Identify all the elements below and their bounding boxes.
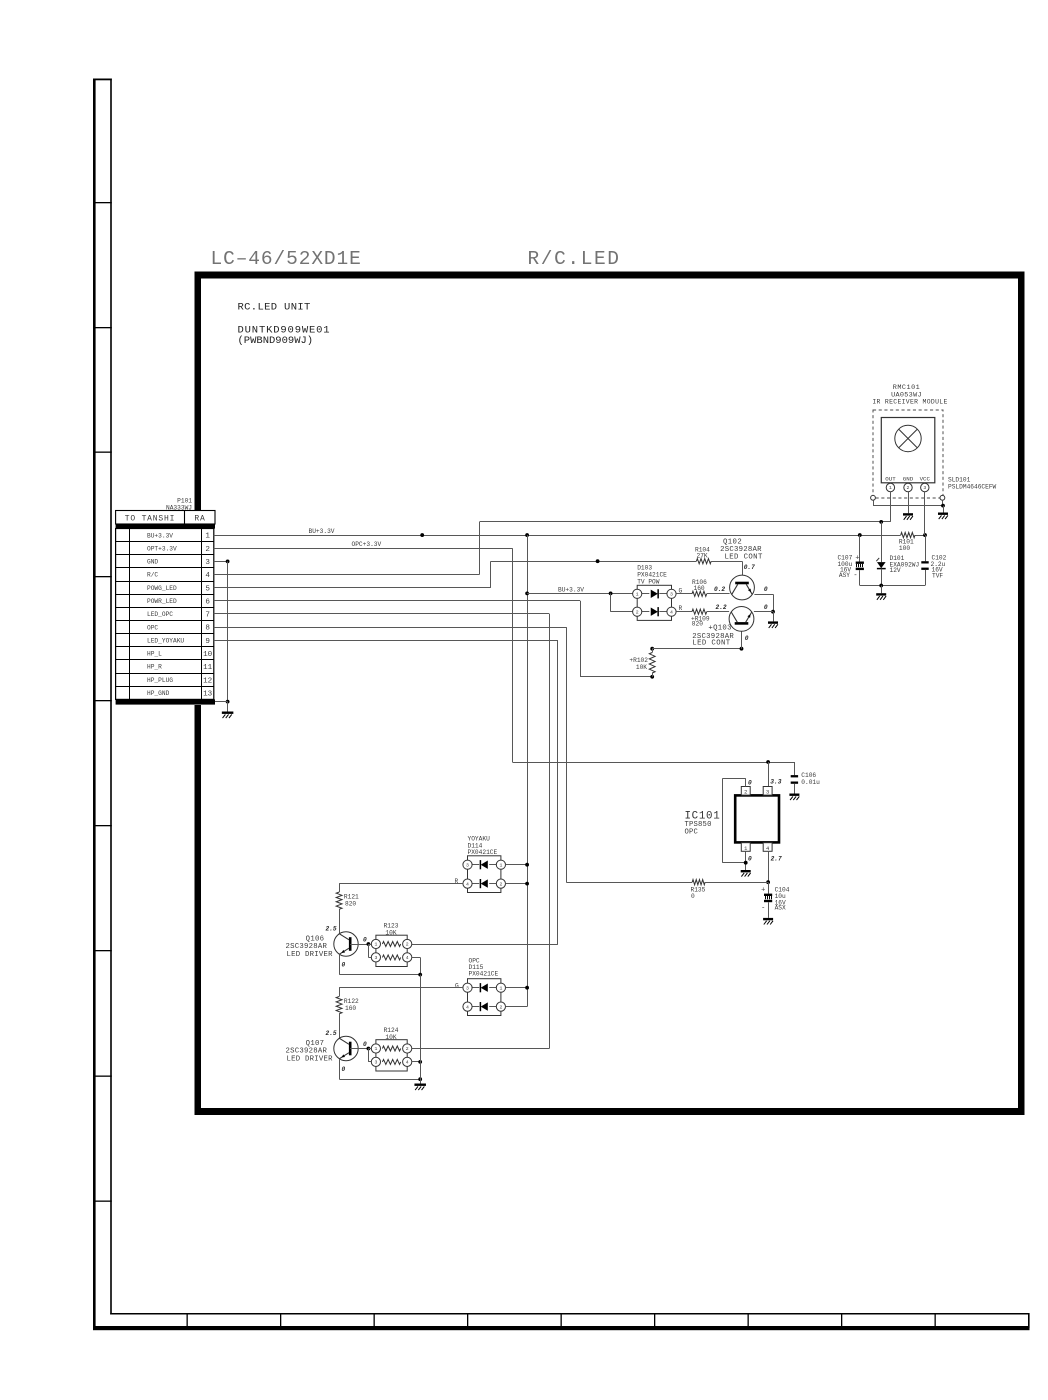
svg-text:6: 6 bbox=[205, 598, 210, 606]
wire IR pin1 OUT bbox=[890, 492, 892, 522]
schematic border box bbox=[195, 272, 1025, 279]
svg-text:IR RECEIVER MODULE: IR RECEIVER MODULE bbox=[872, 399, 947, 406]
svg-text:4: 4 bbox=[406, 1060, 409, 1066]
dual LED D103 bbox=[637, 585, 671, 620]
IC101 pin 3 bbox=[763, 787, 772, 796]
wire Q107 base to R124 bbox=[350, 1048, 368, 1050]
svg-text:R: R bbox=[455, 878, 459, 885]
IC101 body bbox=[735, 795, 779, 842]
sheet left ruler bbox=[93, 79, 96, 1331]
wire C107/D101/C102 bottom rail bbox=[860, 585, 925, 587]
wire BU+3.3V branch down to D103/D114/D115 bbox=[527, 535, 529, 1007]
svg-text:+: + bbox=[761, 887, 765, 895]
wire IR pin2 GND bbox=[908, 492, 910, 514]
svg-text:3: 3 bbox=[374, 955, 377, 961]
svg-text:4: 4 bbox=[466, 881, 469, 887]
svg-text:3: 3 bbox=[923, 485, 926, 491]
wire IC101 pin2 bracket to ground bbox=[745, 778, 747, 786]
svg-text:12: 12 bbox=[203, 677, 213, 685]
svg-text:0: 0 bbox=[363, 1041, 367, 1048]
svg-text:820: 820 bbox=[692, 621, 703, 628]
svg-text:4: 4 bbox=[466, 1004, 469, 1010]
svg-text:+Q103: +Q103 bbox=[708, 624, 731, 632]
svg-text:HP_R: HP_R bbox=[147, 664, 162, 671]
wire IC101 pin1 to ground bbox=[745, 851, 747, 870]
svg-text:0: 0 bbox=[764, 586, 768, 593]
ground below connector bbox=[222, 712, 234, 714]
svg-text:GND: GND bbox=[147, 559, 158, 566]
IC101 pin 2 bbox=[741, 787, 750, 796]
dual LED D115 bbox=[468, 979, 501, 1016]
svg-text:12V: 12V bbox=[890, 567, 901, 574]
svg-text:OUT: OUT bbox=[885, 475, 896, 482]
svg-text:2: 2 bbox=[205, 546, 210, 554]
svg-text:9: 9 bbox=[205, 638, 210, 646]
svg-text:2SC3928AR: 2SC3928AR bbox=[286, 943, 328, 951]
wire POWR_LED pin6 bbox=[214, 600, 580, 602]
transistor Q107 bbox=[334, 1036, 358, 1060]
svg-text:2.5: 2.5 bbox=[326, 1030, 337, 1037]
svg-text:R/C: R/C bbox=[147, 572, 158, 579]
resistor R135 bbox=[692, 880, 705, 885]
IR module pin 2 bbox=[904, 483, 912, 491]
svg-text:2.5: 2.5 bbox=[326, 925, 337, 932]
svg-text:27K: 27K bbox=[697, 552, 708, 559]
junction dots on BU+3.3V wire bbox=[420, 533, 424, 537]
svg-text:13: 13 bbox=[203, 690, 213, 698]
svg-text:TV POW: TV POW bbox=[637, 579, 660, 586]
svg-text:0: 0 bbox=[745, 635, 749, 642]
svg-text:BU+3.3V: BU+3.3V bbox=[147, 532, 173, 539]
svg-text:1: 1 bbox=[374, 942, 377, 948]
zener diode D101 bbox=[881, 522, 883, 562]
wire Q103 emitter to ground bbox=[754, 611, 773, 613]
ground below C104 bbox=[763, 918, 773, 920]
svg-text:160: 160 bbox=[694, 585, 705, 592]
transistor Q102 bbox=[730, 575, 755, 600]
IR module lens circle bbox=[895, 425, 921, 451]
wire Q102 emitter to ground bbox=[754, 594, 773, 596]
svg-text:2: 2 bbox=[499, 881, 502, 887]
transistor Q103 bbox=[729, 607, 754, 632]
ground below Q107 bbox=[414, 1084, 426, 1086]
sheet bottom ruler bbox=[93, 1326, 1030, 1330]
capacitor C107 bbox=[859, 535, 861, 561]
svg-text:1: 1 bbox=[374, 1046, 377, 1052]
wire D103 pin3 to R106 bbox=[676, 593, 692, 595]
svg-text:TO TANSHI: TO TANSHI bbox=[125, 514, 175, 523]
svg-text:3: 3 bbox=[670, 592, 673, 598]
svg-text:OPC+3.3V: OPC+3.3V bbox=[352, 541, 382, 548]
svg-text:1: 1 bbox=[889, 485, 892, 491]
wire GND pin3 bbox=[214, 561, 228, 563]
svg-text:4: 4 bbox=[406, 955, 409, 961]
resistor R106 bbox=[692, 591, 707, 596]
svg-text:3: 3 bbox=[466, 985, 469, 991]
ground below D101 bbox=[876, 593, 886, 595]
svg-text:2SC3928AR: 2SC3928AR bbox=[286, 1048, 328, 1056]
capacitor C102 bbox=[921, 561, 928, 563]
transistor Q106 bbox=[334, 932, 358, 956]
wire R123 pin4 to emitter rail bbox=[412, 957, 420, 959]
wire D114 pin1 to BU+3.3V bbox=[506, 864, 528, 866]
IR module pin 1 bbox=[886, 483, 894, 491]
svg-text:RC.LED UNIT: RC.LED UNIT bbox=[238, 302, 311, 314]
svg-text:PX0421CE: PX0421CE bbox=[637, 572, 667, 579]
svg-text:VCC: VCC bbox=[920, 475, 931, 482]
wire BU+3.3V pin1 bbox=[214, 535, 901, 537]
svg-text:3: 3 bbox=[205, 559, 210, 567]
svg-text:4: 4 bbox=[766, 846, 769, 852]
svg-text:0: 0 bbox=[342, 961, 346, 968]
svg-text:LED CONT: LED CONT bbox=[692, 639, 730, 647]
wire LED_OPC pin7 bbox=[214, 613, 550, 615]
connector P101 bottom bar bbox=[116, 699, 215, 704]
resistor R101 bbox=[901, 532, 915, 537]
svg-text:GND: GND bbox=[903, 475, 914, 482]
svg-text:ASX: ASX bbox=[775, 905, 786, 912]
IR module mounting tab left bbox=[871, 495, 876, 500]
svg-text:BU+3.3V: BU+3.3V bbox=[558, 586, 584, 593]
svg-text:POWR_LED: POWR_LED bbox=[147, 598, 177, 605]
svg-text:PX0421CE: PX0421CE bbox=[468, 849, 498, 856]
wire LED_YOYAKU pin9 bbox=[214, 640, 558, 642]
wire D114 pin2 to BU+3.3V bbox=[506, 883, 528, 885]
wire POWG_LED pin5 bbox=[214, 587, 491, 589]
svg-text:-: - bbox=[853, 572, 857, 580]
svg-text:LED DRIVER: LED DRIVER bbox=[287, 951, 334, 959]
svg-text:1: 1 bbox=[636, 592, 639, 598]
svg-text:4: 4 bbox=[670, 609, 673, 615]
svg-text:LED DRIVER: LED DRIVER bbox=[287, 1055, 334, 1063]
svg-text:2: 2 bbox=[406, 1046, 409, 1052]
IR module RMC101 dashed outline bbox=[873, 410, 943, 498]
svg-text:2: 2 bbox=[744, 790, 747, 796]
svg-text:2: 2 bbox=[406, 942, 409, 948]
svg-text:0.2: 0.2 bbox=[714, 586, 725, 593]
wire OPC pin8 bbox=[214, 627, 567, 629]
svg-text:2.7: 2.7 bbox=[771, 856, 782, 863]
svg-text:-: - bbox=[761, 905, 765, 913]
svg-text:LED_YOYAKU: LED_YOYAKU bbox=[147, 637, 184, 644]
svg-text:1: 1 bbox=[499, 985, 502, 991]
svg-text:10K: 10K bbox=[636, 664, 647, 671]
capacitor C104 bbox=[768, 882, 770, 893]
wire OPC+3.3V to IC101 pin3 and C106 bbox=[766, 760, 770, 764]
svg-text:10: 10 bbox=[203, 651, 213, 659]
wire OPC+3.3V pin2 bbox=[214, 548, 513, 550]
resistor R104 bbox=[696, 559, 711, 564]
wire R124 pin4 to emitter rail bbox=[412, 1061, 420, 1063]
wire D115 pin1 to BU+3.3V bbox=[506, 987, 528, 989]
ground below C106 bbox=[789, 794, 799, 796]
wire Q107 emitter bbox=[339, 1059, 341, 1079]
svg-text:(PWBND909WJ): (PWBND909WJ) bbox=[238, 335, 314, 347]
wire IC101 pin4 bbox=[768, 851, 770, 882]
wire R102 to Q103 base bbox=[652, 648, 741, 650]
resistor R122 bbox=[336, 997, 342, 1014]
svg-text:ASY: ASY bbox=[839, 572, 850, 579]
dual LED D114 bbox=[468, 856, 501, 893]
wire IR pin3 VCC bbox=[924, 492, 926, 535]
svg-text:OPC: OPC bbox=[685, 829, 699, 837]
wire D115 pin2 to BU+3.3V bbox=[506, 1006, 528, 1008]
svg-text:1: 1 bbox=[499, 862, 502, 868]
svg-text:820: 820 bbox=[345, 900, 356, 907]
capacitor C106 bbox=[794, 762, 796, 775]
svg-text:2: 2 bbox=[636, 609, 639, 615]
svg-text:BU+3.3V: BU+3.3V bbox=[309, 528, 335, 535]
svg-text:3.3: 3.3 bbox=[770, 779, 781, 786]
svg-text:5: 5 bbox=[205, 585, 210, 593]
connector P101 table bbox=[116, 511, 215, 525]
svg-text:SLD101: SLD101 bbox=[948, 476, 971, 483]
svg-text:160: 160 bbox=[345, 1005, 356, 1012]
svg-text:11: 11 bbox=[203, 664, 213, 672]
svg-text:2: 2 bbox=[907, 485, 910, 491]
resistor R102 bbox=[650, 675, 654, 679]
svg-text:POWG_LED: POWG_LED bbox=[147, 585, 177, 592]
wire Q106 emitter bbox=[339, 954, 341, 974]
svg-text:LED CONT: LED CONT bbox=[725, 553, 763, 561]
svg-text:LC–46/52XD1E: LC–46/52XD1E bbox=[211, 248, 362, 270]
IR module mounting tab right bbox=[940, 495, 945, 500]
svg-text:G: G bbox=[455, 983, 459, 990]
svg-text:1: 1 bbox=[744, 846, 747, 852]
svg-text:2.2: 2.2 bbox=[716, 604, 727, 611]
svg-text:LED_OPC: LED_OPC bbox=[147, 611, 173, 618]
svg-text:100: 100 bbox=[899, 545, 910, 552]
svg-text:0: 0 bbox=[748, 779, 752, 786]
svg-text:OPT+3.3V: OPT+3.3V bbox=[147, 545, 177, 552]
IC101 pin 4 bbox=[763, 843, 772, 852]
wire mounting tabs to ground bbox=[873, 500, 875, 505]
resistor R109 bbox=[692, 609, 707, 614]
ground at IR mounting bbox=[938, 513, 948, 515]
ground below IC101 pin1 bbox=[741, 870, 751, 872]
svg-text:R/C.LED: R/C.LED bbox=[528, 248, 621, 270]
wire Q106 base to R123 bbox=[350, 944, 368, 946]
IC101 pin 1 bbox=[741, 843, 750, 852]
wire D103 pin4 to R109 bbox=[676, 611, 692, 613]
svg-text:2: 2 bbox=[499, 1004, 502, 1010]
svg-text:R: R bbox=[679, 605, 683, 612]
svg-text:RA: RA bbox=[194, 514, 205, 523]
svg-text:3: 3 bbox=[374, 1060, 377, 1066]
svg-text:+: + bbox=[855, 555, 859, 563]
wire to D103 pin1 bbox=[527, 593, 632, 595]
svg-text:OPC: OPC bbox=[147, 624, 158, 631]
svg-text:3: 3 bbox=[766, 790, 769, 796]
ground at Q102/Q103 emitters bbox=[768, 621, 778, 623]
svg-text:HP_GND: HP_GND bbox=[147, 690, 170, 697]
svg-text:C106: C106 bbox=[801, 772, 816, 779]
svg-text:1: 1 bbox=[205, 533, 210, 541]
svg-text:0.7: 0.7 bbox=[744, 564, 755, 571]
IR module pin 3 bbox=[921, 483, 929, 491]
IR module body bbox=[881, 418, 935, 483]
svg-text:0: 0 bbox=[691, 893, 695, 900]
svg-text:7: 7 bbox=[205, 612, 210, 620]
svg-text:8: 8 bbox=[205, 625, 210, 633]
wire D114 pin4 to R121 bbox=[339, 883, 463, 885]
svg-text:0: 0 bbox=[764, 604, 768, 611]
svg-text:HP_L: HP_L bbox=[147, 651, 162, 658]
svg-text:TVF: TVF bbox=[932, 572, 943, 579]
svg-text:HP_PLUG: HP_PLUG bbox=[147, 677, 173, 684]
svg-text:3: 3 bbox=[466, 862, 469, 868]
ground at IR pin2 bbox=[903, 513, 913, 515]
svg-text:D103: D103 bbox=[637, 565, 652, 572]
svg-text:PX0421CE: PX0421CE bbox=[469, 971, 499, 978]
emitter rail to ground bbox=[420, 975, 422, 1084]
svg-text:4: 4 bbox=[205, 572, 210, 580]
wire D115 pin3 to R122 bbox=[339, 987, 463, 989]
resistor R121 bbox=[336, 892, 342, 909]
svg-text:0: 0 bbox=[748, 856, 752, 863]
svg-text:0: 0 bbox=[342, 1066, 346, 1073]
svg-text:0.01u: 0.01u bbox=[801, 779, 820, 786]
svg-text:PSLDM4646CEFW: PSLDM4646CEFW bbox=[948, 483, 997, 490]
svg-text:0: 0 bbox=[363, 937, 367, 944]
wire R/C pin4 bbox=[214, 574, 480, 576]
